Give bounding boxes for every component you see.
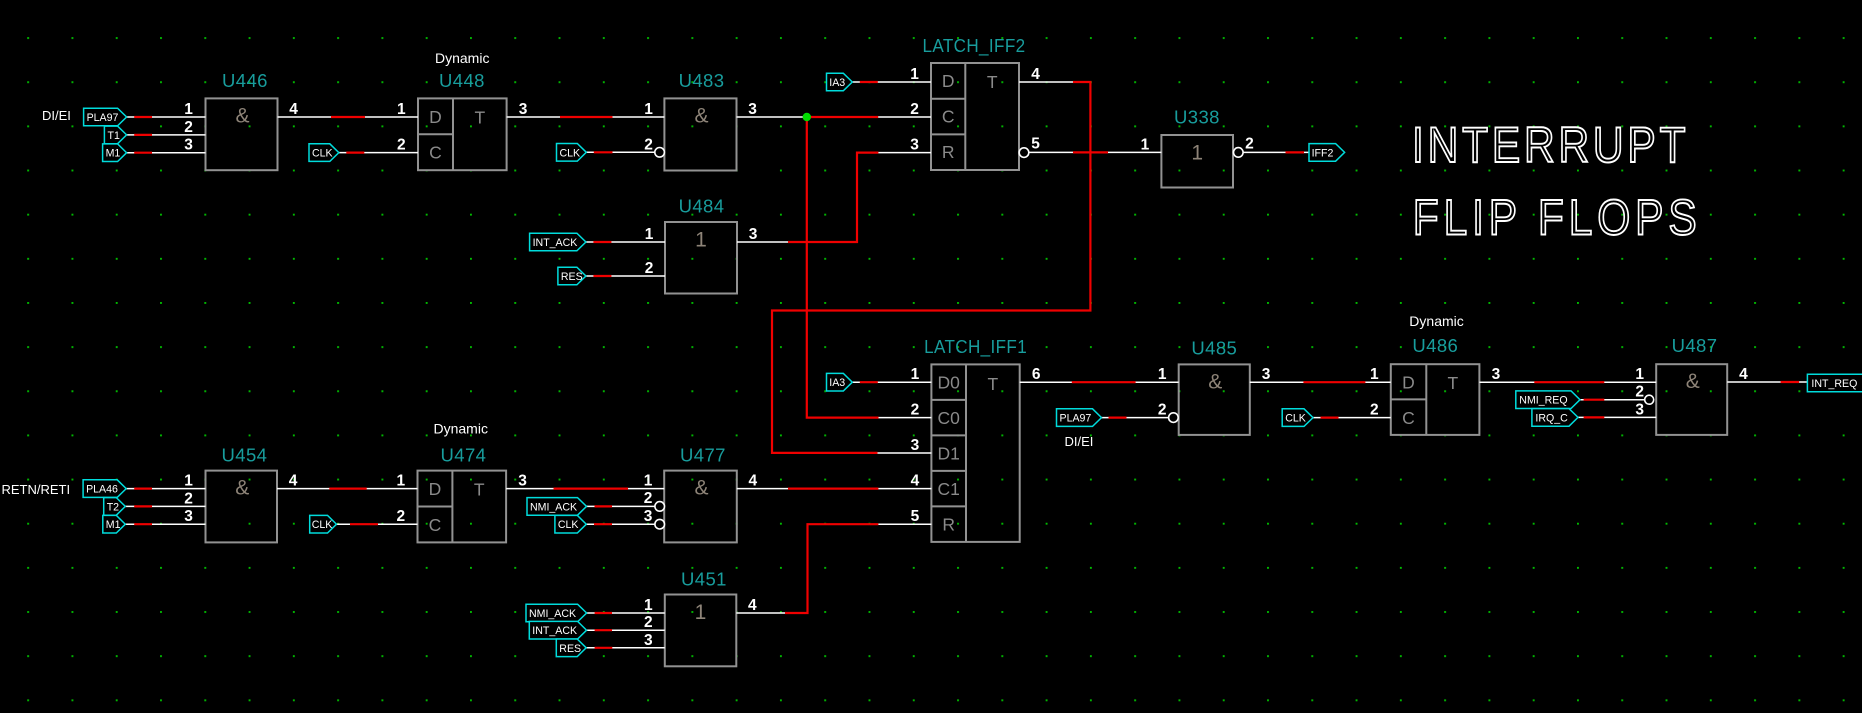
wire U486.3 to U487.1 xyxy=(1479,381,1656,383)
svg-text:FLIP FLOPS: FLIP FLOPS xyxy=(1413,189,1697,245)
net flag M1 xyxy=(103,144,127,162)
svg-text:U477: U477 xyxy=(680,445,726,466)
wire LATCH_IFF2.4 feedback to LATCH_IFF1.3 xyxy=(772,82,1090,453)
and-gate U477 xyxy=(644,445,758,543)
svg-text:U338: U338 xyxy=(1174,107,1220,128)
svg-text:2: 2 xyxy=(184,119,193,136)
net flag INT_REQ xyxy=(1807,374,1862,392)
wire U446.4 to U448.1 xyxy=(278,116,419,118)
svg-text:D1: D1 xyxy=(938,444,960,464)
svg-text:NMI_ACK: NMI_ACK xyxy=(529,608,576,620)
wire CLK to U486.2 xyxy=(1313,417,1391,419)
svg-text:IA3: IA3 xyxy=(829,77,845,89)
svg-text:3: 3 xyxy=(184,137,193,154)
wire NMI_ACK to U451.1 xyxy=(587,612,665,614)
svg-text:U485: U485 xyxy=(1191,338,1237,359)
svg-text:T: T xyxy=(1448,373,1459,393)
svg-text:2: 2 xyxy=(644,136,653,153)
latch LATCH_IFF1 xyxy=(911,336,1041,542)
wire M1 to U446.3 xyxy=(127,152,206,154)
svg-text:&: & xyxy=(235,477,249,500)
net flag IRQ_C xyxy=(1532,409,1578,427)
svg-text:3: 3 xyxy=(748,101,757,118)
net flag CLK (U483) xyxy=(557,144,587,162)
svg-text:2: 2 xyxy=(1245,136,1254,153)
svg-text:T: T xyxy=(987,72,998,92)
svg-text:6: 6 xyxy=(1032,366,1041,383)
svg-text:4: 4 xyxy=(748,597,757,614)
svg-text:CLK: CLK xyxy=(1285,413,1306,425)
svg-text:&: & xyxy=(235,104,249,127)
svg-text:2: 2 xyxy=(911,402,920,419)
svg-text:M1: M1 xyxy=(106,519,121,531)
wire PLA97 to U446.1 xyxy=(127,116,206,118)
wire U485.3 to U486.1 xyxy=(1250,381,1391,383)
svg-text:INTERRUPT: INTERRUPT xyxy=(1412,117,1686,173)
svg-text:PLA97: PLA97 xyxy=(1060,413,1092,425)
svg-text:Dynamic: Dynamic xyxy=(434,421,488,437)
net flag IFF2 xyxy=(1309,144,1345,162)
wire U484.3 to LATCH_IFF2.3 xyxy=(737,153,931,242)
svg-text:2: 2 xyxy=(397,137,406,154)
svg-text:1: 1 xyxy=(397,101,406,118)
svg-text:5: 5 xyxy=(1031,136,1040,153)
wire CLK to U483.2 xyxy=(586,151,654,153)
svg-text:U454: U454 xyxy=(222,445,268,466)
net flag CLK (U448) xyxy=(309,144,339,162)
svg-text:U486: U486 xyxy=(1412,335,1458,356)
svg-text:3: 3 xyxy=(184,508,193,525)
net flag PLA97 (U485) xyxy=(1057,409,1102,427)
svg-text:U483: U483 xyxy=(679,70,725,91)
svg-text:C0: C0 xyxy=(938,408,961,428)
svg-text:D: D xyxy=(429,479,442,499)
latch LATCH_IFF2 xyxy=(910,35,1040,170)
svg-text:2: 2 xyxy=(396,508,405,525)
svg-text:4: 4 xyxy=(289,101,298,118)
net flag NMI_REQ xyxy=(1516,391,1580,409)
wire U454.4 to U474.1 xyxy=(277,488,418,490)
svg-text:2: 2 xyxy=(645,260,654,277)
wire U483.3 to LATCH_IFF2.2 xyxy=(737,116,932,118)
svg-text:D: D xyxy=(942,71,955,91)
wire T2 to U454.2 xyxy=(125,505,205,507)
svg-text:1: 1 xyxy=(1158,366,1167,383)
svg-text:LATCH_IFF2: LATCH_IFF2 xyxy=(923,35,1026,57)
wire CLK to U474.2 xyxy=(337,523,418,525)
wire INT_ACK to U484.1 xyxy=(586,241,665,243)
wire IRQ_C to U487.3 xyxy=(1578,416,1656,418)
svg-text:1: 1 xyxy=(645,226,654,243)
svg-text:4: 4 xyxy=(911,473,920,490)
svg-text:U474: U474 xyxy=(441,445,487,466)
wire CLK to U477.3 xyxy=(586,523,655,525)
wire LATCH_IFF2.5 to U338.1 xyxy=(1029,151,1161,153)
svg-text:INT_ACK: INT_ACK xyxy=(533,237,578,249)
svg-text:C: C xyxy=(429,143,442,163)
svg-text:1: 1 xyxy=(644,473,653,490)
svg-text:&: & xyxy=(694,104,708,127)
text DI/EI xyxy=(42,108,71,123)
svg-text:T1: T1 xyxy=(108,130,120,142)
dff U486 xyxy=(1370,313,1501,435)
svg-text:PLA46: PLA46 xyxy=(86,484,118,496)
wire U451.4 to LATCH_IFF1.5 xyxy=(736,524,931,613)
svg-text:1: 1 xyxy=(911,366,920,383)
svg-text:3: 3 xyxy=(644,632,653,649)
svg-text:LATCH_IFF1: LATCH_IFF1 xyxy=(924,336,1027,358)
svg-text:C: C xyxy=(942,107,955,127)
svg-text:1: 1 xyxy=(695,601,707,624)
svg-text:U451: U451 xyxy=(681,569,727,590)
or-gate U484 xyxy=(645,196,758,294)
svg-text:1: 1 xyxy=(644,597,653,614)
net flag NMI_ACK (U477) xyxy=(527,498,587,516)
svg-text:3: 3 xyxy=(749,226,758,243)
svg-text:&: & xyxy=(694,477,708,500)
svg-text:U448: U448 xyxy=(439,70,485,91)
svg-text:IA3: IA3 xyxy=(829,377,845,389)
svg-text:2: 2 xyxy=(644,614,653,631)
svg-text:1: 1 xyxy=(184,101,193,118)
text DI/EI (U485) xyxy=(1065,434,1094,449)
svg-text:3: 3 xyxy=(644,508,653,525)
wire LATCH_IFF1.6 to U485.1 xyxy=(1020,381,1179,383)
net flag IA3 (LATCH_IFF1) xyxy=(827,373,853,391)
wire U338.2 to IFF2 flag xyxy=(1243,151,1309,153)
svg-text:4: 4 xyxy=(1739,366,1748,383)
svg-text:2: 2 xyxy=(1635,384,1644,401)
wire RES to U484.2 xyxy=(586,275,665,277)
svg-text:T2: T2 xyxy=(107,501,119,513)
and-gate U454 xyxy=(184,445,298,543)
svg-text:NMI_REQ: NMI_REQ xyxy=(1519,395,1567,407)
wire INT_ACK to U451.2 xyxy=(587,629,665,631)
wire NMI_ACK to U477.2 xyxy=(587,505,656,507)
dff U474 xyxy=(396,421,527,543)
svg-text:INT_REQ: INT_REQ xyxy=(1811,378,1857,390)
net flag CLK (U477) xyxy=(555,515,586,533)
svg-text:4: 4 xyxy=(289,473,298,490)
svg-text:3: 3 xyxy=(1492,366,1501,383)
net flag RES (U451) xyxy=(556,639,586,657)
wire junction drop to LATCH_IFF1.2 xyxy=(807,117,932,418)
net flag CLK (U474) xyxy=(310,515,337,533)
svg-text:U446: U446 xyxy=(222,70,268,91)
svg-text:R: R xyxy=(942,514,955,534)
svg-text:3: 3 xyxy=(910,137,919,154)
svg-text:CLK: CLK xyxy=(558,519,579,531)
svg-text:T: T xyxy=(474,107,485,127)
or-gate U451 xyxy=(644,569,757,667)
wire U487.4 to INT_REQ flag xyxy=(1727,381,1807,383)
svg-text:Dynamic: Dynamic xyxy=(1409,313,1463,329)
svg-text:RES: RES xyxy=(561,271,583,283)
svg-text:T: T xyxy=(987,374,998,394)
svg-text:4: 4 xyxy=(748,473,757,490)
svg-text:DI/EI: DI/EI xyxy=(1065,434,1094,449)
svg-text:D: D xyxy=(429,107,442,127)
svg-text:4: 4 xyxy=(1031,66,1040,83)
inverter U338 xyxy=(1141,107,1254,188)
net flag RES (U484) xyxy=(558,267,586,285)
wire U474.3 to U477.1 xyxy=(506,488,664,490)
svg-text:2: 2 xyxy=(184,490,193,507)
wire U448.3 to U483.1 xyxy=(507,116,665,118)
text RETN/RETI xyxy=(2,482,71,497)
svg-text:U487: U487 xyxy=(1672,335,1718,356)
net flag NMI_ACK (U451) xyxy=(526,604,587,622)
svg-text:&: & xyxy=(1208,370,1222,393)
svg-text:3: 3 xyxy=(518,473,527,490)
and-gate U487 xyxy=(1635,335,1748,435)
svg-text:1: 1 xyxy=(644,101,653,118)
svg-text:5: 5 xyxy=(911,508,920,525)
dff U448 xyxy=(397,50,528,170)
svg-text:CLK: CLK xyxy=(560,147,581,159)
wire M1 to U454.3 xyxy=(125,523,205,525)
net flag PLA97 xyxy=(84,108,127,126)
svg-text:C: C xyxy=(429,515,442,535)
junction node U483.3 xyxy=(803,113,811,121)
svg-text:PLA97: PLA97 xyxy=(87,112,119,124)
svg-text:U484: U484 xyxy=(679,196,725,217)
wire PLA46 to U454.1 xyxy=(126,488,205,490)
wire PLA97 to U485.2 xyxy=(1102,417,1169,419)
svg-text:DI/EI: DI/EI xyxy=(42,108,71,123)
wire NMI_REQ to U487.2 xyxy=(1580,399,1644,401)
svg-text:INT_ACK: INT_ACK xyxy=(532,625,577,637)
and-gate U446 xyxy=(184,70,298,170)
svg-text:3: 3 xyxy=(1262,366,1271,383)
svg-text:1: 1 xyxy=(396,473,405,490)
svg-text:2: 2 xyxy=(1370,402,1379,419)
svg-text:C: C xyxy=(1402,408,1415,428)
svg-text:1: 1 xyxy=(1635,366,1644,383)
svg-text:1: 1 xyxy=(910,66,919,83)
net flag T2 xyxy=(104,498,126,516)
wire IA3 to LATCH_IFF2.1 xyxy=(852,81,931,83)
net flag IA3 (LATCH_IFF2) xyxy=(827,73,853,91)
net flag INT_ACK (U484) xyxy=(530,233,586,251)
svg-text:3: 3 xyxy=(519,101,528,118)
svg-text:&: & xyxy=(1686,370,1700,393)
svg-text:1: 1 xyxy=(1370,366,1379,383)
svg-text:RES: RES xyxy=(559,643,581,655)
svg-text:NMI_ACK: NMI_ACK xyxy=(530,501,577,513)
net flag T1 xyxy=(104,126,126,144)
svg-text:D: D xyxy=(1402,372,1415,392)
svg-text:2: 2 xyxy=(644,490,653,507)
svg-text:3: 3 xyxy=(1635,401,1644,418)
svg-text:RETN/RETI: RETN/RETI xyxy=(2,482,71,497)
svg-text:R: R xyxy=(942,142,955,162)
wire RES to U451.3 xyxy=(586,647,665,649)
wire U477.4 to LATCH_IFF1.4 xyxy=(737,488,932,490)
title INTERRUPT FLIP FLOPS xyxy=(1412,117,1697,246)
net flag PLA46 xyxy=(83,480,126,498)
wire CLK to U448.2 xyxy=(339,152,418,154)
svg-text:1: 1 xyxy=(1141,136,1150,153)
svg-text:C1: C1 xyxy=(938,479,960,499)
wire T1 to U446.2 xyxy=(127,134,206,136)
svg-text:1: 1 xyxy=(695,228,707,251)
svg-text:CLK: CLK xyxy=(312,148,333,160)
and-gate U483 xyxy=(644,70,757,171)
net flag M1 (U454) xyxy=(103,515,126,533)
svg-text:M1: M1 xyxy=(106,148,121,160)
svg-text:1: 1 xyxy=(1191,142,1203,165)
svg-text:CLK: CLK xyxy=(312,519,333,531)
svg-text:1: 1 xyxy=(184,473,193,490)
wire IA3 to LATCH_IFF1.1 xyxy=(852,381,931,383)
svg-text:2: 2 xyxy=(910,101,919,118)
net flag INT_ACK (U451) xyxy=(529,621,586,639)
net flag CLK (U486) xyxy=(1282,409,1313,427)
svg-text:3: 3 xyxy=(911,437,920,454)
svg-text:T: T xyxy=(474,480,485,500)
svg-text:IFF2: IFF2 xyxy=(1312,147,1334,159)
svg-text:IRQ_C: IRQ_C xyxy=(1535,412,1568,424)
svg-text:D0: D0 xyxy=(938,373,961,393)
svg-text:2: 2 xyxy=(1158,402,1167,419)
svg-text:Dynamic: Dynamic xyxy=(435,50,489,66)
and-gate U485 xyxy=(1158,338,1271,435)
